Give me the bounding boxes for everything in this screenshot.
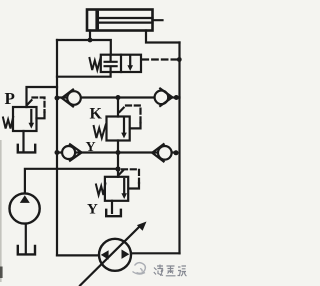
wire cylinder right port to right rail bbox=[146, 31, 180, 43]
valve P spring W bbox=[3, 117, 13, 129]
valve V1 pilot dashed line bbox=[143, 58, 178, 60]
wire right rail to motor bbox=[131, 252, 180, 254]
check valve CV3 bbox=[62, 146, 75, 159]
valve V1 left box blocked ports (T symbols) bbox=[105, 55, 117, 72]
tank T1 under P valve bbox=[18, 145, 35, 153]
node lowrail-left bbox=[55, 150, 60, 155]
valve K spring W bbox=[94, 125, 106, 139]
node lowrail-right bbox=[174, 150, 179, 155]
valve V1 right box arrow bbox=[129, 55, 131, 66]
valve V1 divider bbox=[120, 55, 122, 72]
wire Y valve bottom to tank bbox=[111, 201, 113, 213]
right rail wire bbox=[178, 43, 180, 254]
wire P valve top to left rail bbox=[27, 87, 58, 107]
node rail-K bbox=[116, 95, 121, 100]
valve K pilot dashed hook bbox=[120, 107, 125, 112]
wire valve V1 bottom port to left rail bbox=[57, 72, 111, 77]
valve P pilot dashed hook bbox=[28, 100, 32, 104]
wire cylinder left port down bbox=[89, 31, 91, 41]
wire P valve bottom to tank bbox=[22, 131, 24, 151]
svg-text:P: P bbox=[5, 89, 15, 108]
watermark logo bbox=[133, 263, 146, 274]
check valve CV2 bbox=[155, 91, 169, 105]
valve V1 body (2-position) bbox=[101, 55, 141, 72]
cylinder C1 rod bbox=[99, 18, 163, 23]
scan artifact left edge bbox=[0, 140, 2, 282]
motor M1 right triangle bbox=[122, 250, 130, 259]
cylinder C1 body bbox=[87, 10, 153, 31]
node lowrail-K bbox=[116, 150, 121, 155]
wire pump to node bbox=[25, 169, 118, 194]
tank T3 under pump bbox=[18, 246, 35, 254]
valve Y body bbox=[105, 177, 128, 201]
check valve CV1 bbox=[67, 91, 81, 105]
valve P arrow bbox=[30, 110, 32, 124]
pump P1 circle bbox=[10, 193, 40, 223]
wire node at cylinder left port bbox=[88, 38, 93, 43]
cylinder C1 piston bbox=[95, 11, 99, 30]
valve Y arrow bbox=[123, 179, 125, 194]
wire K valve chain vertical bbox=[117, 98, 119, 177]
wire pump bottom to tank bbox=[25, 224, 27, 253]
pump P1 triangle bbox=[20, 195, 30, 203]
valve Y spring W bbox=[96, 184, 105, 196]
watermark text 液压说 bbox=[154, 265, 187, 277]
node rail-right bbox=[174, 95, 179, 100]
svg-text:Y: Y bbox=[87, 202, 98, 218]
check valve CV4 bbox=[158, 146, 172, 160]
motor M1 left triangle bbox=[101, 250, 109, 259]
motor M1 circle bbox=[99, 239, 131, 271]
motor M1 variable arrow bbox=[80, 226, 141, 286]
wire horizontal to left rail and valve V1 top bbox=[57, 40, 111, 55]
svg-text:Y: Y bbox=[86, 140, 96, 155]
lower check rail wire bbox=[57, 151, 176, 153]
svg-text:K: K bbox=[90, 106, 103, 123]
valve K arrow bbox=[123, 119, 125, 134]
valve V1 spring W bbox=[90, 58, 101, 70]
wire left rail to motor bbox=[57, 254, 99, 256]
left rail wire bbox=[56, 40, 58, 255]
valve K body bbox=[107, 117, 130, 141]
node pilot to right rail bbox=[177, 57, 182, 62]
node pump-Y bbox=[115, 166, 120, 171]
tank T2 under Y valve bbox=[106, 210, 121, 216]
upper check rail wire bbox=[57, 96, 180, 98]
valve Y pilot dashed hook bbox=[119, 171, 123, 175]
node rail-left bbox=[55, 96, 60, 101]
valve P body bbox=[13, 107, 37, 131]
